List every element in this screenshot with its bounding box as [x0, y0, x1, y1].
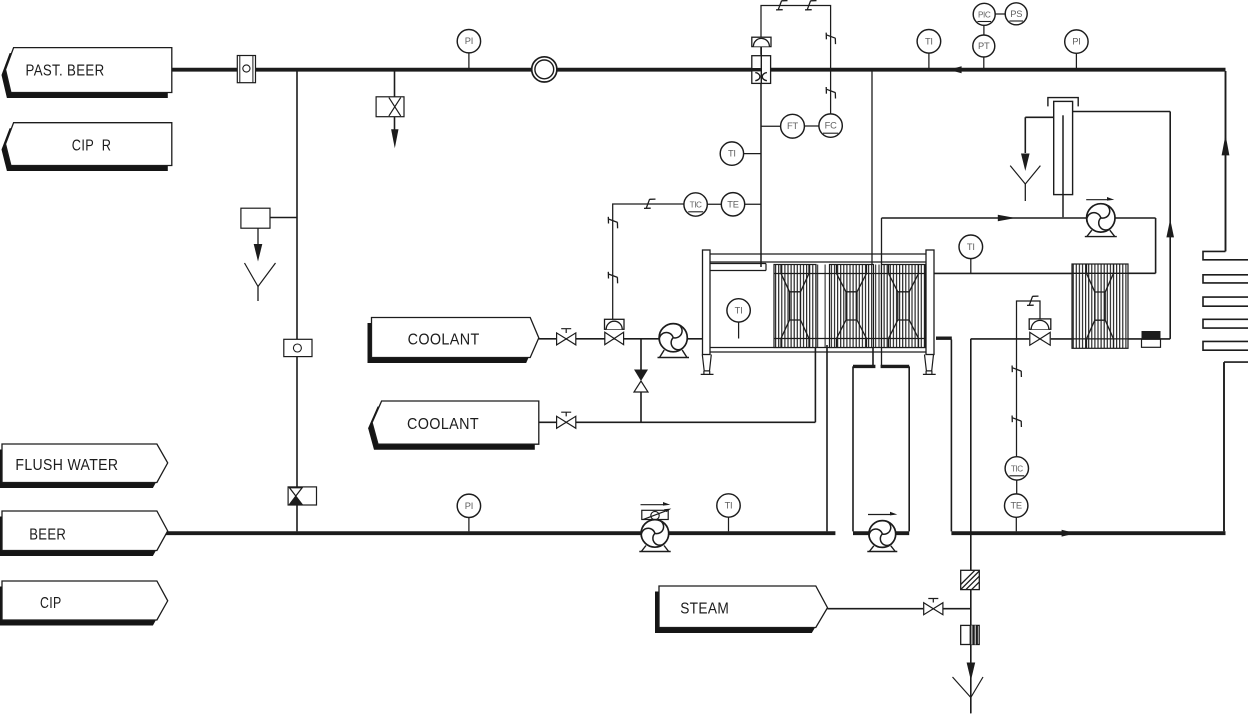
- control valve FCV: body: [752, 56, 771, 84]
- flag STEAM: [655, 586, 828, 633]
- svg-text:FLUSH WATER: FLUSH WATER: [15, 457, 118, 474]
- control valve TCV1 (coolant): actuator box with dome: [605, 319, 625, 329]
- instrument PI (header, left): [457, 30, 480, 53]
- vent box on CIP branch: [241, 208, 270, 228]
- pipe: hot pump discharge drop: [1155, 218, 1157, 273]
- sight glass on CIP branch: [284, 339, 312, 356]
- pump P2 (beer feed): [639, 520, 670, 552]
- pipe: heater outlet stub (thick dash): [936, 337, 952, 340]
- instrument FT: [781, 114, 805, 138]
- pump P3 (buffer tank outlet): [867, 521, 897, 552]
- wire: left drain funnel stem: [1024, 184, 1026, 201]
- instrument PI (beer line): [457, 494, 480, 517]
- svg-text:COOLANT: COOLANT: [407, 416, 479, 433]
- svg-text:TE: TE: [727, 199, 738, 209]
- instrument TI (beer line): [717, 494, 740, 517]
- control valve FCV (on header): actuator box with dome: [752, 37, 771, 46]
- instrument TE (hot water line): [1005, 494, 1028, 517]
- svg-text:TIC: TIC: [690, 201, 702, 210]
- svg-text:STEAM: STEAM: [680, 601, 729, 618]
- pipe: pasteurized beer header (top, thick): [172, 68, 1226, 72]
- pipe: buffer tank left wall: [852, 366, 854, 531]
- pipe: expansion tank right nozzle: [1073, 111, 1171, 113]
- pipe: buffer tank bottom (thick): [853, 531, 909, 535]
- pipe: heater bottom port line: [971, 338, 1170, 340]
- svg-text:COOLANT: COOLANT: [408, 332, 480, 349]
- flow arrow up (heater vent riser): [1166, 219, 1174, 237]
- arrow above pump P2: [641, 504, 665, 506]
- flag BEER: [0, 511, 168, 556]
- pipe: coolant riser into HX: [814, 345, 816, 422]
- instrument TI (holding line): [720, 142, 743, 165]
- wire: drain valve drop from header: [394, 71, 396, 97]
- instrument FC: [819, 114, 842, 137]
- instrument TI (header, right): [917, 30, 941, 54]
- wire: drop from valve box to vent arrow: [394, 117, 396, 130]
- wire: branch to vent box: [270, 217, 297, 219]
- pump P1 (coolant): [658, 324, 690, 358]
- heat exchanger E1 frame: bottom bars: [710, 348, 926, 353]
- heat exchanger E1: left post: [703, 250, 711, 355]
- control valve TCV1: bowtie: [605, 332, 614, 344]
- heat exchanger E1: flow hourglass pack 3: [889, 265, 919, 348]
- wire: FC signal to flow control valve: [761, 6, 831, 114]
- heat exchanger E2: flow hourglass: [1072, 264, 1128, 348]
- svg-text:TI: TI: [967, 242, 975, 252]
- arrow above pump P3: [868, 514, 891, 516]
- flow arrow right (hot water line): [1062, 530, 1076, 537]
- svg-text:BEER: BEER: [29, 527, 66, 544]
- hand valve V2 (coolant return): [557, 412, 576, 428]
- control valve FCV: stem: [760, 47, 762, 56]
- wire: bottom drain funnel stem: [970, 698, 972, 714]
- pipe: heater top port line: [934, 272, 1156, 274]
- svg-text:TI: TI: [725, 501, 733, 511]
- svg-text:TI: TI: [735, 305, 743, 315]
- flag FLUSH WATER: [0, 444, 168, 488]
- wire: PI leader (beer line): [468, 518, 470, 532]
- drain arrow (bottom right): [967, 663, 976, 681]
- pipe: serpentine outlet down to hot-water line: [1223, 362, 1225, 531]
- svg-text:PI: PI: [1072, 37, 1080, 47]
- drain funnel (bottom right): [953, 677, 984, 698]
- pipe: coolant return line: [539, 421, 816, 423]
- instrument PI (header, far right): [1065, 30, 1088, 53]
- wire: TI leader (beer line): [728, 517, 730, 531]
- expansion tank T2: top cap: [1048, 98, 1078, 107]
- steam injector (hatched box): [961, 570, 980, 589]
- pipe: holding-tube riser (right edge, down from header): [1225, 71, 1227, 251]
- pipe: heater outlet drop: [950, 340, 952, 532]
- wire: TIC-TE connectors (top): [707, 203, 761, 205]
- heat exchanger E1: left foot: [701, 355, 714, 375]
- steam trap (half striped box): [961, 625, 980, 644]
- heat exchanger E1: plate pack 2: [830, 265, 874, 348]
- arrow above pump P4: [1086, 199, 1108, 201]
- wire: TIC2 signal to heater control valve: [1017, 301, 1041, 457]
- flag PAST. BEER: [2, 48, 172, 98]
- wire: PT leader and PIC/PS connectors: [984, 14, 1005, 68]
- pipe: heater vent riser: [1169, 112, 1171, 339]
- pipe: buffer tank riser to hot pump suction: [881, 218, 883, 366]
- hand valve V1 (coolant supply): [557, 329, 576, 345]
- pipe: buffer tank right wall: [908, 366, 910, 531]
- svg-text:TIC: TIC: [1011, 464, 1023, 473]
- flow arrow left (header): [949, 66, 962, 73]
- heat exchanger E1 frame: top carrying bars: [710, 254, 926, 271]
- in-line instrument on header (flow indicator): [237, 56, 255, 83]
- pipe stub into FCV body: [752, 68, 762, 71]
- heat exchanger E2 (steam heater): plate pack: [1072, 264, 1128, 348]
- svg-text:PT: PT: [978, 41, 990, 51]
- heat exchanger E1: gap channel lines: [818, 265, 879, 348]
- pump P2 (beer feed): variable drive box: [642, 509, 672, 520]
- expansion tank T2: dip tube: [1062, 115, 1064, 217]
- pipe: hot pump suction line: [882, 217, 1156, 219]
- heat exchanger E1: flow hourglass pack 2: [837, 265, 867, 348]
- instrument TIC (coolant control): [684, 193, 707, 216]
- wire: FT leader: [761, 125, 819, 127]
- flag COOLANT (supply): [368, 318, 539, 364]
- hand valve V3 (steam): [924, 599, 943, 615]
- pipe: beer supply line (bottom, thick): [166, 531, 835, 535]
- pipe: beer riser into HX: [826, 345, 828, 531]
- pipe: steam supply line: [828, 608, 971, 610]
- wire: CIP branch vertical from header: [296, 71, 298, 531]
- check valve (coolant bypass): [634, 370, 648, 382]
- wire: TI leader (hot loop): [970, 259, 972, 274]
- instrument PT: [973, 35, 995, 57]
- heat exchanger E1: right post: [926, 250, 934, 355]
- wire: TI leader (holding line): [744, 153, 761, 155]
- wire: vent box drop / funnel stem: [257, 228, 259, 301]
- pipe: buffer tank top caps (thick): [853, 365, 909, 368]
- vent arrow below box: [254, 244, 263, 262]
- pump P4 (hot water circulation): [1085, 204, 1117, 237]
- svg-text:PAST. BEER: PAST. BEER: [26, 63, 105, 80]
- instrument TI (hot loop): [959, 235, 983, 259]
- instrument PIC: [973, 3, 995, 25]
- svg-text:FC: FC: [825, 121, 837, 131]
- instrument TIC (steam control): [1005, 457, 1028, 480]
- svg-text:FT: FT: [787, 121, 798, 131]
- pipe: expansion tank left nozzle to drain: [1025, 117, 1053, 153]
- drain funnel (expansion tank): [1010, 166, 1040, 184]
- pipe: steam/condensate vertical: [970, 339, 972, 713]
- svg-text:TE: TE: [1010, 501, 1021, 511]
- svg-text:PIC: PIC: [978, 10, 991, 19]
- heat exchanger E1: plate pack 3: [882, 265, 926, 348]
- squiggle marks on pneumatic signal lines: [776, 1, 788, 10]
- drain funnel (left): [245, 263, 276, 287]
- wire: bypass with check valve: [640, 339, 642, 423]
- valve on CIP branch (box with bowtie): [288, 487, 316, 505]
- drain arrow (expansion tank): [1021, 154, 1030, 172]
- control valve TCV2: bowtie: [1030, 332, 1040, 345]
- heat exchanger E1: right foot: [923, 355, 936, 375]
- svg-text:CIP R: CIP R: [72, 138, 112, 155]
- sight glass on header: [532, 57, 557, 82]
- heat exchanger E1: port ledges: [774, 274, 925, 339]
- svg-text:TI: TI: [925, 36, 933, 46]
- flow arrow right (hot pump suction): [998, 215, 1016, 221]
- flag CIP R: [2, 123, 172, 171]
- vent arrow below drain valve: [391, 129, 398, 148]
- control valve TCV2 (steam heater): actuator box with dome: [1029, 319, 1051, 329]
- wire: TI leader (HX bay): [738, 322, 740, 338]
- wire: TIC signal to coolant control valve: [613, 204, 684, 319]
- heat exchanger E1: plate pack 1: [774, 265, 816, 348]
- svg-text:PS: PS: [1010, 9, 1022, 19]
- wire: PI leader (right): [1075, 53, 1077, 68]
- svg-text:PI: PI: [465, 501, 473, 511]
- flow arrow up (holding tube riser): [1222, 135, 1230, 156]
- pipe: coolant supply line: [539, 338, 703, 340]
- control valve FCV: seat arcs: [755, 73, 767, 81]
- wire: PI leader (top left): [468, 53, 470, 68]
- flag CIP: [0, 581, 168, 626]
- instrument TI (HX coolant bay): [727, 299, 750, 322]
- expansion tank T2: [1054, 101, 1073, 194]
- pipe: regeneration return drop from header: [871, 71, 873, 274]
- instrument TE (holding line): [721, 193, 744, 216]
- svg-text:PI: PI: [465, 36, 473, 46]
- pipe: hot water line bottom right (thick): [951, 531, 1225, 535]
- wire: TIC2-TE2 connector and TE2 leader: [1015, 480, 1017, 531]
- instrument PS: [1005, 3, 1027, 25]
- pipe: HX drop to buffer tank left: [872, 345, 874, 366]
- pipe: holding tube serpentine: [1203, 251, 1248, 362]
- drain valve (X-box) on header branch: [376, 97, 404, 117]
- pipe: flow control valve stem and riser to HX: [760, 46, 762, 267]
- heater block component (black/white box): [1142, 339, 1161, 347]
- wire: TI leader (top right): [928, 53, 930, 68]
- flag COOLANT (return): [368, 401, 539, 450]
- svg-text:CIP: CIP: [40, 595, 62, 612]
- heat exchanger E1: flow hourglass pack 1: [781, 265, 809, 348]
- svg-text:TI: TI: [728, 149, 736, 159]
